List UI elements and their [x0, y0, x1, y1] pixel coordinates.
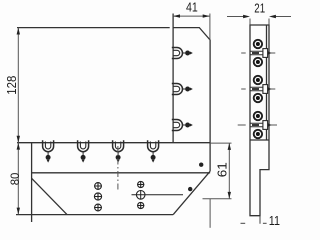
- svg-text:41: 41: [186, 1, 198, 15]
- svg-text:128: 128: [5, 76, 19, 95]
- svg-text:80: 80: [8, 172, 22, 185]
- svg-text:11: 11: [269, 214, 280, 228]
- svg-text:61: 61: [216, 162, 230, 177]
- svg-text:21: 21: [254, 2, 265, 16]
